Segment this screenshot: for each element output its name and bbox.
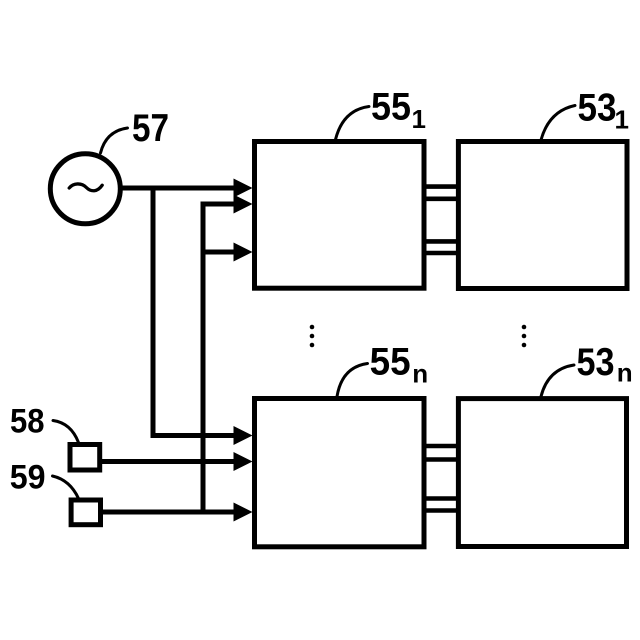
- bus link 1a between 55_1 and 53_1: [424, 184, 459, 189]
- leader line 57: [101, 128, 128, 153]
- bus link 2b between 55_1 and 53_1: [424, 251, 459, 256]
- arrowhead into 55_n input 2: [234, 452, 253, 471]
- bus link 1b between 55_n and 53_n: [424, 457, 459, 462]
- ellipsis dots left column: [310, 325, 315, 348]
- svg-text:1: 1: [412, 104, 426, 134]
- bus link 2b between 55_n and 53_n: [424, 508, 459, 513]
- wire riser A horizontal to 55_n input 1: [151, 433, 237, 438]
- box 55_n: [255, 399, 425, 547]
- AC source 57 (circle): [50, 154, 120, 224]
- bus link 2a between 55_n and 53_n: [424, 496, 459, 501]
- svg-text:n: n: [412, 359, 428, 389]
- svg-text:n: n: [617, 358, 633, 388]
- arrowhead into 55_n input 1: [234, 426, 253, 445]
- arrowhead into 55_1 input 3: [234, 243, 253, 262]
- svg-text:57: 57: [132, 107, 169, 150]
- leader line 53_1: [541, 106, 575, 141]
- bus link 1b between 55_1 and 53_1: [424, 197, 459, 202]
- svg-text:53: 53: [578, 87, 617, 130]
- wire branch to 55_1 input 3: [203, 250, 236, 255]
- leader line 55_1: [336, 107, 370, 140]
- arrowhead into 55_1 input 1: [234, 179, 253, 198]
- wire 59 to 55_n input 3: [101, 510, 236, 515]
- input block 59 (square): [71, 500, 100, 525]
- input block 58 (square): [70, 445, 100, 471]
- leader line 58: [53, 421, 79, 443]
- leader line 53_n: [541, 365, 574, 397]
- wire riser B top horizontal to 55_1 input 2: [201, 202, 237, 207]
- ellipsis dots right column: [522, 325, 527, 348]
- AC tilde symbol: [69, 184, 102, 191]
- svg-text:1: 1: [615, 105, 629, 135]
- svg-text:55: 55: [370, 340, 411, 383]
- svg-text:59: 59: [10, 459, 46, 497]
- wire riser A (from AC line down): [151, 186, 156, 436]
- wire riser B vertical: [201, 204, 206, 512]
- wire 58 to 55_n input 2: [100, 459, 236, 464]
- box 55_1: [255, 142, 425, 289]
- bus link 2a between 55_1 and 53_1: [424, 239, 459, 244]
- arrowhead into 55_1 input 2: [234, 195, 253, 214]
- svg-text:58: 58: [10, 402, 45, 440]
- arrowhead into 55_n input 3: [234, 503, 253, 522]
- box 53_1: [458, 142, 627, 289]
- svg-text:53: 53: [577, 341, 615, 384]
- leader line 55_n: [337, 364, 368, 397]
- wire AC output to box 55_1 input 1: [121, 186, 236, 191]
- bus link 1a between 55_n and 53_n: [424, 444, 459, 449]
- box 53_n: [458, 399, 626, 547]
- svg-text:55: 55: [371, 85, 411, 128]
- leader line 59: [53, 476, 79, 499]
